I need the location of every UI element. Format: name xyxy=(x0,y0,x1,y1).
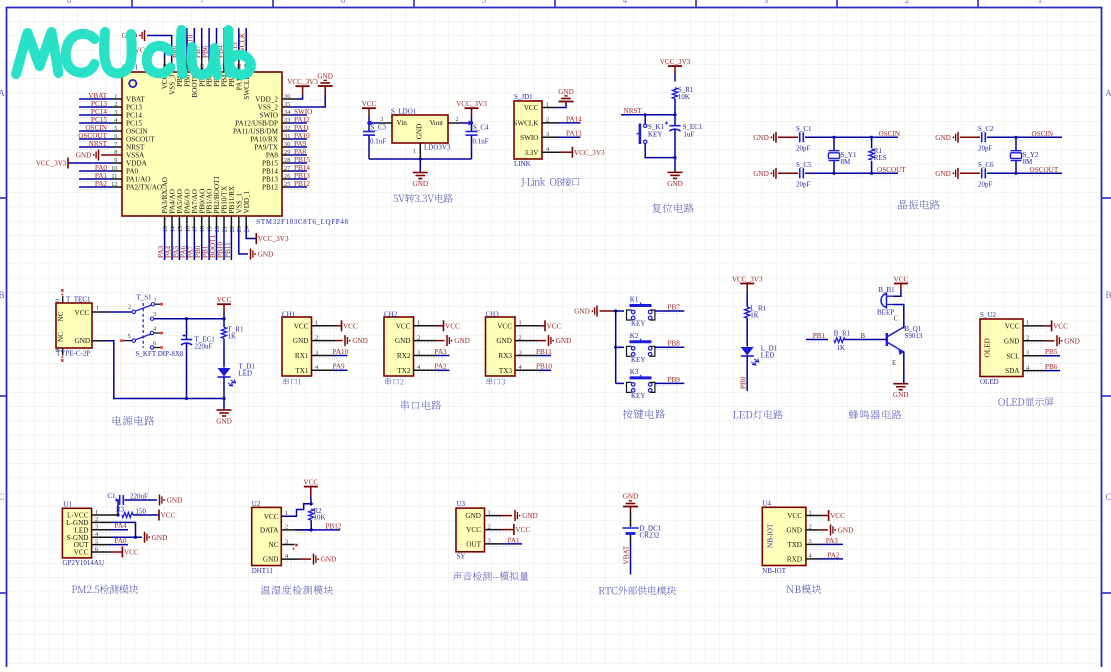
svg-text:STM32F103C8T6_LQFP48: STM32F103C8T6_LQFP48 xyxy=(256,218,348,226)
svg-text:22: 22 xyxy=(229,226,236,232)
svg-text:OLED: OLED xyxy=(980,378,999,386)
svg-text:VCC: VCC xyxy=(515,526,530,534)
svg-text:S_C2: S_C2 xyxy=(978,125,994,133)
svg-text:C1: C1 xyxy=(107,492,116,500)
svg-text:S_U2: S_U2 xyxy=(980,311,996,319)
svg-text:S_JD1: S_JD1 xyxy=(514,93,533,101)
svg-text:B_R1: B_R1 xyxy=(834,330,851,338)
svg-text:20pF: 20pF xyxy=(978,180,993,188)
svg-text:GND: GND xyxy=(574,308,590,316)
svg-text:VCC: VCC xyxy=(161,512,176,520)
svg-text:K3: K3 xyxy=(630,368,639,376)
svg-text:OSCIN: OSCIN xyxy=(85,124,107,132)
svg-text:RXD: RXD xyxy=(787,556,802,564)
svg-text:1: 1 xyxy=(413,148,416,155)
svg-text:6: 6 xyxy=(341,0,345,5)
svg-text:VCC: VCC xyxy=(294,322,309,330)
svg-text:PA2: PA2 xyxy=(827,551,840,559)
svg-text:PA8: PA8 xyxy=(294,148,307,156)
svg-text:SCL: SCL xyxy=(1006,352,1019,360)
svg-text:PA2: PA2 xyxy=(435,363,448,371)
svg-text:150: 150 xyxy=(136,508,147,516)
svg-text:VBAT: VBAT xyxy=(126,96,145,104)
svg-text:VCC_3V3: VCC_3V3 xyxy=(258,235,289,243)
svg-text:SWIO: SWIO xyxy=(260,112,278,120)
svg-text:VCC: VCC xyxy=(396,322,411,330)
svg-text:GND: GND xyxy=(263,556,279,564)
svg-text:24: 24 xyxy=(244,225,251,232)
svg-text:B: B xyxy=(1105,290,1111,300)
svg-text:GND: GND xyxy=(75,337,91,345)
svg-text:PB14: PB14 xyxy=(262,168,278,176)
svg-text:GND: GND xyxy=(395,337,411,345)
svg-text:8M: 8M xyxy=(1023,158,1034,166)
svg-text:SWIO: SWIO xyxy=(294,108,312,116)
svg-text:0.1uF: 0.1uF xyxy=(370,138,386,146)
svg-text:U1: U1 xyxy=(63,501,72,509)
svg-text:GND: GND xyxy=(496,337,512,345)
svg-text:OSCOUT: OSCOUT xyxy=(877,166,906,174)
svg-text:GND: GND xyxy=(753,170,769,178)
svg-text:PB8: PB8 xyxy=(668,340,681,348)
svg-text:1: 1 xyxy=(154,297,157,304)
svg-text:PB9: PB9 xyxy=(668,376,681,384)
svg-text:DATA: DATA xyxy=(260,527,279,535)
svg-text:Vout: Vout xyxy=(430,119,443,127)
svg-text:VCC: VCC xyxy=(343,322,358,330)
svg-text:8M: 8M xyxy=(841,158,852,166)
svg-text:TX1: TX1 xyxy=(295,367,309,375)
svg-text:VCC: VCC xyxy=(445,322,460,330)
svg-text:C: C xyxy=(1105,492,1111,502)
svg-text:CH3: CH3 xyxy=(486,311,500,319)
svg-text:VCC: VCC xyxy=(547,322,562,330)
svg-text:GND: GND xyxy=(623,493,639,501)
svg-text:OSCIN: OSCIN xyxy=(879,130,901,138)
svg-text:VBAT: VBAT xyxy=(622,545,630,564)
svg-text:PA8: PA8 xyxy=(266,152,279,160)
svg-text:E: E xyxy=(892,360,896,367)
svg-text:PB5: PB5 xyxy=(1045,348,1058,356)
svg-text:GND: GND xyxy=(216,418,232,426)
svg-text:VCC_3V3: VCC_3V3 xyxy=(732,275,763,283)
svg-text:B: B xyxy=(0,290,5,300)
svg-text:LINK: LINK xyxy=(514,160,531,168)
svg-text:GND: GND xyxy=(522,512,538,520)
svg-text:PB10: PB10 xyxy=(536,363,552,371)
svg-text:U4: U4 xyxy=(762,500,771,508)
svg-text:16: 16 xyxy=(184,226,191,232)
svg-text:7: 7 xyxy=(200,0,204,5)
svg-text:PA0: PA0 xyxy=(115,537,128,545)
svg-text:S_LDO1: S_LDO1 xyxy=(391,108,417,116)
svg-text:GND: GND xyxy=(935,134,951,142)
svg-text:GND: GND xyxy=(293,337,309,345)
svg-text:T_S1: T_S1 xyxy=(137,294,153,302)
svg-text:OSCOUT: OSCOUT xyxy=(78,132,107,140)
svg-text:VSSA: VSSA xyxy=(126,152,145,160)
svg-text:1uF: 1uF xyxy=(684,131,695,139)
svg-text:8: 8 xyxy=(67,0,71,5)
svg-text:10K: 10K xyxy=(678,93,690,101)
svg-text:0: 0 xyxy=(55,349,62,352)
svg-text:GND: GND xyxy=(558,88,574,96)
svg-text:0: 0 xyxy=(55,299,62,302)
svg-text:PA0: PA0 xyxy=(126,168,139,176)
svg-text:PB13: PB13 xyxy=(262,176,278,184)
svg-text:PC14: PC14 xyxy=(126,112,142,120)
svg-text:KEY: KEY xyxy=(648,131,662,139)
svg-text:KEY: KEY xyxy=(631,356,645,364)
svg-text:VCC_3V3: VCC_3V3 xyxy=(456,100,487,108)
svg-text:NC: NC xyxy=(269,541,279,549)
svg-text:3.3V: 3.3V xyxy=(524,149,539,157)
svg-text:PB14: PB14 xyxy=(294,164,310,172)
svg-text:NRST: NRST xyxy=(89,140,108,148)
svg-text:GND: GND xyxy=(753,134,769,142)
svg-text:21: 21 xyxy=(221,226,228,232)
svg-text:TX2: TX2 xyxy=(397,367,411,375)
svg-text:VCC: VCC xyxy=(75,309,90,317)
svg-text:GP2Y1014AU: GP2Y1014AU xyxy=(62,559,104,567)
svg-text:U3: U3 xyxy=(457,500,466,508)
svg-text:VCC: VCC xyxy=(362,100,377,108)
svg-text:VCC_3V3: VCC_3V3 xyxy=(574,149,605,157)
svg-text:20pF: 20pF xyxy=(796,180,811,188)
svg-text:S_C6: S_C6 xyxy=(978,161,994,169)
svg-text:PA12: PA12 xyxy=(294,116,310,124)
svg-text:GND: GND xyxy=(76,152,92,160)
svg-text:NC: NC xyxy=(57,332,65,342)
svg-text:PB0: PB0 xyxy=(740,376,748,389)
svg-text:VBAT: VBAT xyxy=(88,92,107,100)
svg-text:VCC: VCC xyxy=(124,549,139,557)
svg-text:PA3: PA3 xyxy=(435,348,448,356)
svg-text:R3: R3 xyxy=(116,506,125,514)
svg-text:1K: 1K xyxy=(750,312,759,320)
svg-text:U2: U2 xyxy=(252,500,261,508)
svg-text:PB6: PB6 xyxy=(1045,363,1058,371)
svg-text:VCC: VCC xyxy=(830,512,845,520)
svg-text:10K: 10K xyxy=(314,514,326,522)
svg-text:6: 6 xyxy=(153,340,156,347)
svg-text:1: 1 xyxy=(1038,0,1042,5)
svg-text:VDD_1: VDD_1 xyxy=(243,190,251,213)
svg-text:OSCOUT: OSCOUT xyxy=(126,136,155,144)
svg-text:14: 14 xyxy=(169,225,176,232)
svg-text:PB12: PB12 xyxy=(262,184,278,192)
svg-text:PB11: PB11 xyxy=(224,242,232,258)
svg-text:PC14: PC14 xyxy=(91,108,107,116)
svg-text:1K: 1K xyxy=(837,344,846,352)
svg-text:OLED: OLED xyxy=(984,338,992,357)
svg-text:LDO3V3: LDO3V3 xyxy=(424,144,451,152)
svg-text:TXD: TXD xyxy=(787,541,802,549)
svg-text:220uF: 220uF xyxy=(130,493,148,501)
svg-text:VCC: VCC xyxy=(894,275,909,283)
svg-text:VCC: VCC xyxy=(524,104,539,112)
svg-text:B: B xyxy=(861,333,866,340)
svg-text:S_C3: S_C3 xyxy=(371,124,387,132)
svg-text:PA2/TX/AO: PA2/TX/AO xyxy=(126,184,162,192)
svg-text:A: A xyxy=(1105,88,1111,98)
svg-text:1K: 1K xyxy=(228,333,237,341)
svg-text:A: A xyxy=(0,88,5,98)
svg-text:PA3: PA3 xyxy=(826,537,839,545)
svg-text:0.1uF: 0.1uF xyxy=(473,138,489,146)
svg-text:SWIO: SWIO xyxy=(520,134,538,142)
svg-text:PA1: PA1 xyxy=(508,536,521,544)
svg-text:CH1: CH1 xyxy=(282,311,296,319)
svg-text:GND: GND xyxy=(413,180,429,188)
svg-text:VCC: VCC xyxy=(497,322,512,330)
svg-text:GND: GND xyxy=(893,391,909,399)
svg-text:VCC: VCC xyxy=(74,549,89,557)
svg-text:3: 3 xyxy=(764,0,768,5)
svg-text:PA14: PA14 xyxy=(566,115,582,123)
svg-text:GND: GND xyxy=(1004,337,1020,345)
svg-text:VCC: VCC xyxy=(466,526,481,534)
svg-text:5: 5 xyxy=(482,0,486,5)
svg-text:2: 2 xyxy=(128,304,131,311)
svg-text:KEY: KEY xyxy=(631,320,645,328)
svg-text:RX3: RX3 xyxy=(498,352,512,360)
svg-text:DHT11: DHT11 xyxy=(252,567,274,575)
svg-text:GND: GND xyxy=(352,337,368,345)
svg-text:GND: GND xyxy=(1064,337,1080,345)
svg-text:PA12/USB/DP: PA12/USB/DP xyxy=(235,120,278,128)
svg-text:PB15: PB15 xyxy=(262,160,278,168)
svg-text:SY: SY xyxy=(457,553,466,561)
svg-text:S_C1: S_C1 xyxy=(796,125,812,133)
svg-text:PA10: PA10 xyxy=(333,348,349,356)
svg-text:NB-IOT: NB-IOT xyxy=(767,523,775,548)
svg-text:GND: GND xyxy=(465,512,481,520)
svg-text:2: 2 xyxy=(456,116,459,123)
svg-text:CH2: CH2 xyxy=(384,311,398,319)
svg-text:GND: GND xyxy=(667,180,683,188)
svg-text:PB7: PB7 xyxy=(668,303,681,311)
svg-text:C: C xyxy=(894,316,899,323)
svg-text:VCC: VCC xyxy=(303,478,318,486)
svg-text:20: 20 xyxy=(214,226,221,232)
svg-text:NC: NC xyxy=(57,311,65,321)
svg-text:GND: GND xyxy=(556,337,572,345)
svg-text:PC15: PC15 xyxy=(126,120,142,128)
svg-text:RES: RES xyxy=(874,154,887,162)
svg-text:PA1/AO: PA1/AO xyxy=(126,176,151,184)
svg-text:SDA: SDA xyxy=(1005,367,1020,375)
svg-text:S_C5: S_C5 xyxy=(796,161,812,169)
svg-text:TX3: TX3 xyxy=(499,367,513,375)
svg-text:C: C xyxy=(0,492,5,502)
svg-text:PA9: PA9 xyxy=(294,140,307,148)
svg-text:3: 3 xyxy=(380,116,383,123)
svg-text:13: 13 xyxy=(162,226,169,232)
svg-text:PB12: PB12 xyxy=(294,180,310,188)
svg-text:GND: GND xyxy=(416,124,424,140)
svg-text:RX1: RX1 xyxy=(295,352,309,360)
svg-text:GND: GND xyxy=(152,534,168,542)
svg-text:S_C4: S_C4 xyxy=(473,124,489,132)
svg-text:PA11/USB/DM: PA11/USB/DM xyxy=(233,128,279,136)
svg-text:18: 18 xyxy=(199,226,206,232)
svg-text:VCC_3V3: VCC_3V3 xyxy=(660,58,691,66)
svg-text:KEY: KEY xyxy=(631,392,645,400)
svg-text:BEEP: BEEP xyxy=(877,309,894,317)
svg-text:PB1: PB1 xyxy=(813,332,826,340)
svg-text:PA9/TX: PA9/TX xyxy=(254,144,279,152)
svg-text:PB15: PB15 xyxy=(294,156,310,164)
svg-text:PB12: PB12 xyxy=(326,522,342,530)
svg-text:LED: LED xyxy=(761,352,775,360)
svg-text:220uF: 220uF xyxy=(195,343,213,351)
svg-text:19: 19 xyxy=(207,226,214,232)
svg-text:NB-IOT: NB-IOT xyxy=(762,567,786,575)
svg-text:SWCLK: SWCLK xyxy=(513,120,539,128)
svg-text:VCC: VCC xyxy=(217,296,232,304)
svg-text:3: 3 xyxy=(153,311,156,318)
svg-text:NRST: NRST xyxy=(624,107,643,115)
svg-text:20pF: 20pF xyxy=(796,144,811,152)
svg-text:VCC: VCC xyxy=(1053,323,1068,331)
svg-text:PC15: PC15 xyxy=(91,116,107,124)
svg-text:VDDA: VDDA xyxy=(126,160,148,168)
svg-text:GND: GND xyxy=(935,170,951,178)
svg-text:PA10: PA10 xyxy=(294,132,310,140)
svg-text:PA9: PA9 xyxy=(333,363,346,371)
svg-text:VSS_2: VSS_2 xyxy=(258,104,279,112)
svg-text:VCC_3V3: VCC_3V3 xyxy=(287,78,318,86)
svg-text:GND: GND xyxy=(258,251,274,259)
svg-text:2: 2 xyxy=(905,0,909,5)
svg-text:PA13: PA13 xyxy=(566,130,582,138)
svg-text:GND: GND xyxy=(317,73,333,81)
svg-text:OSCOUT: OSCOUT xyxy=(1030,166,1059,174)
svg-text:20pF: 20pF xyxy=(978,144,993,152)
svg-text:PA0: PA0 xyxy=(95,164,108,172)
svg-text:PB11: PB11 xyxy=(536,348,552,356)
svg-text:5: 5 xyxy=(128,333,131,340)
svg-text:15: 15 xyxy=(177,226,184,232)
svg-text:OSCIN: OSCIN xyxy=(126,128,148,136)
svg-text:PA1: PA1 xyxy=(95,172,108,180)
svg-text:PA11: PA11 xyxy=(294,124,310,132)
svg-text:VDD_2: VDD_2 xyxy=(255,96,278,104)
svg-text:OUT: OUT xyxy=(466,541,481,549)
svg-text:K2: K2 xyxy=(630,332,639,340)
svg-text:Vin: Vin xyxy=(397,119,408,127)
svg-text:VCC: VCC xyxy=(264,513,279,521)
svg-text:PA4: PA4 xyxy=(115,522,128,530)
svg-text:PA10/RX: PA10/RX xyxy=(250,136,279,144)
svg-text:GND: GND xyxy=(167,497,183,505)
svg-text:T_TEC1: T_TEC1 xyxy=(66,296,91,304)
svg-text:23: 23 xyxy=(236,226,243,232)
svg-text:GND: GND xyxy=(838,527,854,535)
svg-text:PC13: PC13 xyxy=(91,100,107,108)
svg-text:PA2: PA2 xyxy=(95,180,108,188)
svg-text:GND: GND xyxy=(786,527,802,535)
svg-text:OSCIN: OSCIN xyxy=(1032,130,1054,138)
svg-text:PC13: PC13 xyxy=(126,104,142,112)
svg-text:RX2: RX2 xyxy=(397,352,411,360)
svg-text:S_KFT DIP-8X8: S_KFT DIP-8X8 xyxy=(136,350,184,358)
svg-text:CR232: CR232 xyxy=(640,532,660,540)
svg-text:GND: GND xyxy=(321,556,337,564)
svg-text:VCC_3V3: VCC_3V3 xyxy=(36,160,67,168)
svg-text:LED: LED xyxy=(239,370,253,378)
svg-text:K1: K1 xyxy=(630,296,639,304)
svg-text:1: 1 xyxy=(96,305,99,312)
svg-text:S9013: S9013 xyxy=(905,332,923,340)
svg-text:17: 17 xyxy=(192,225,199,232)
svg-text:VCC: VCC xyxy=(787,512,802,520)
svg-text:PB13: PB13 xyxy=(294,172,310,180)
svg-text:NRST: NRST xyxy=(126,144,145,152)
svg-text:VCC: VCC xyxy=(1005,323,1020,331)
svg-text:GND: GND xyxy=(454,337,470,345)
